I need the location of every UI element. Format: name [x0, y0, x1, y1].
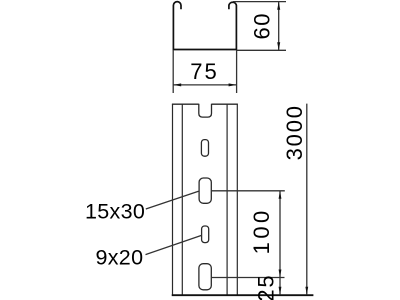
side view left outer edge: [172, 104, 174, 294]
leader line 15x30: [146, 191, 199, 209]
arrow 75 left: [173, 83, 181, 86]
arrow 3000 bottom: [305, 287, 308, 295]
dimension line 75: [173, 84, 236, 86]
arrow 100 top: [279, 191, 282, 199]
arrow 60 bottom: [277, 42, 280, 50]
arrow 100 bottom: [279, 270, 282, 278]
side view right outer edge: [236, 104, 238, 294]
extension line slot center upper: [212, 190, 285, 192]
slot 9x20 lower: [202, 226, 209, 243]
extension line slot center lower: [212, 277, 285, 279]
leader line 9x20: [146, 235, 202, 254]
arrow 60 top: [277, 2, 280, 10]
cross-section U-profile outline: [173, 2, 236, 50]
svg-text:75: 75: [190, 59, 218, 84]
dimension line 60: [278, 2, 280, 51]
svg-text:3000: 3000: [282, 104, 307, 160]
rail bottom end edge: [172, 294, 314, 296]
slot 9x20 upper: [201, 140, 208, 157]
extension line 75 left: [172, 50, 174, 93]
extension line 60 bottom: [237, 49, 286, 51]
svg-text:60: 60: [250, 12, 275, 39]
svg-text:25: 25: [254, 274, 279, 300]
side view top edge: [172, 103, 238, 105]
slot 15x30 upper: [199, 178, 211, 203]
arrow 25 bottom: [279, 287, 282, 295]
svg-text:100: 100: [249, 207, 274, 254]
top cut slot notch: [199, 104, 212, 117]
side view left inner fold line: [181, 104, 183, 294]
slot 15x30 lower: [199, 264, 211, 290]
dimension line 100 and 25: [279, 191, 281, 295]
extension line 60 top: [233, 1, 286, 3]
dimension line 3000: [306, 104, 308, 295]
svg-text:15x30: 15x30: [85, 200, 145, 224]
arrow 75 right: [229, 83, 237, 86]
svg-text:9x20: 9x20: [96, 246, 144, 270]
side view right inner fold line: [226, 104, 228, 294]
extension line 75 right: [236, 50, 238, 93]
